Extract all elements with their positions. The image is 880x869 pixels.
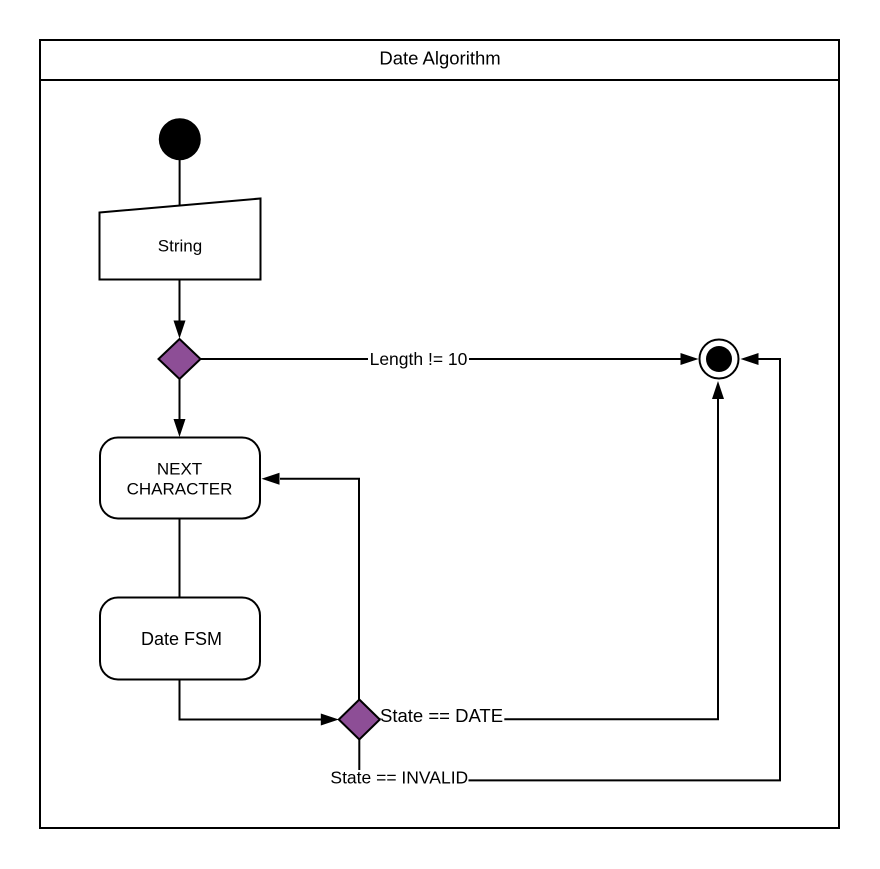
svg-text:CHARACTER: CHARACTER <box>127 480 233 499</box>
svg-text:State == DATE: State == DATE <box>380 705 503 726</box>
svg-text:NEXT: NEXT <box>157 459 202 478</box>
svg-text:Date Algorithm: Date Algorithm <box>379 48 500 69</box>
svg-text:Length != 10: Length != 10 <box>370 349 468 369</box>
svg-text:String: String <box>158 237 202 256</box>
svg-text:State == INVALID: State == INVALID <box>330 767 468 787</box>
svg-text:Date FSM: Date FSM <box>141 629 222 649</box>
